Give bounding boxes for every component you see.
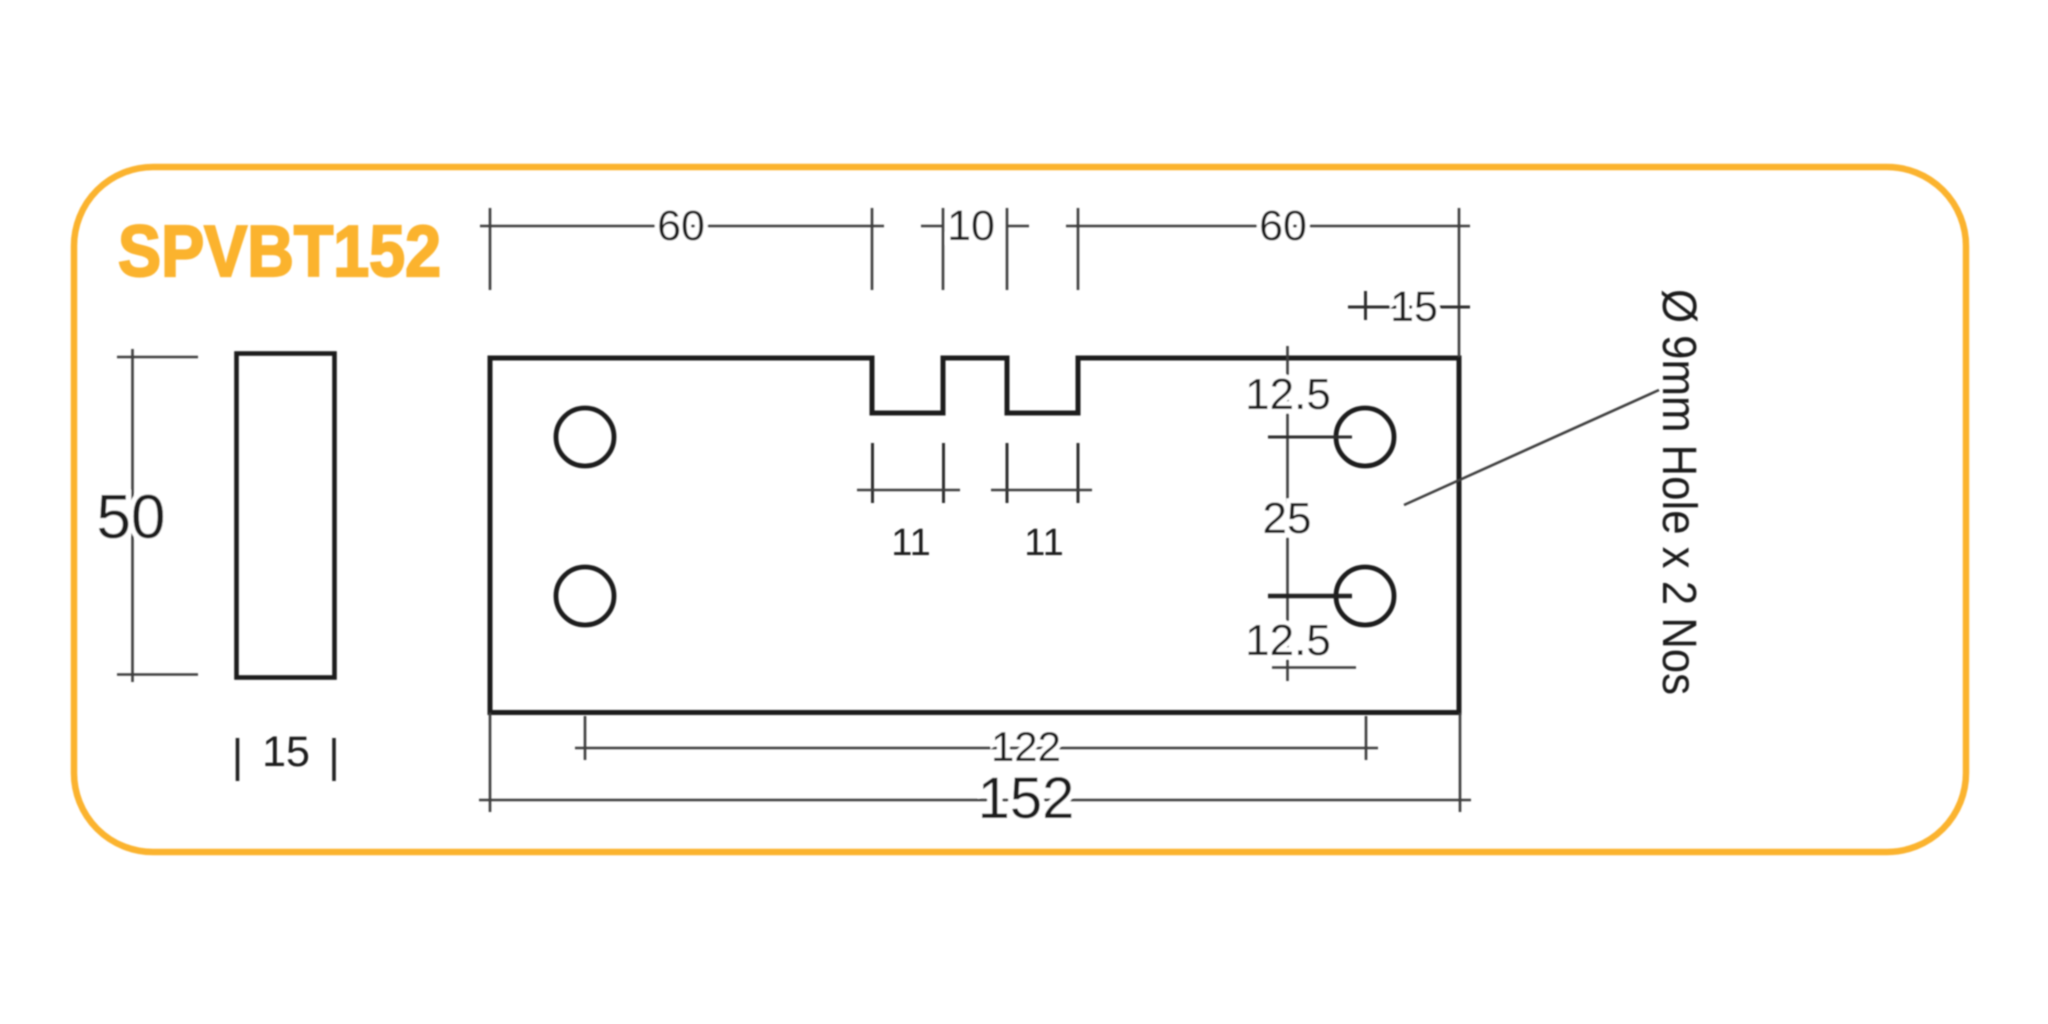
svg-text:11: 11 [891, 522, 930, 564]
svg-text:25: 25 [1263, 494, 1312, 543]
notch dim 11 left: tick b [942, 443, 945, 503]
right dims: vertical line [1286, 346, 1289, 681]
hole top-left [556, 408, 614, 466]
dim 15 top-right: line [1348, 306, 1470, 309]
notch dim 11 left: line [857, 489, 960, 492]
hole bottom-right [1336, 567, 1394, 625]
dim 15 (side view width): left bar [236, 738, 240, 781]
svg-text:15: 15 [1390, 283, 1438, 331]
dim 60 left: line [480, 225, 884, 228]
dim 15 top-right: left tick [1364, 291, 1367, 320]
notch dim 11 right: tick a [1006, 443, 1009, 503]
svg-text:12.5: 12.5 [1245, 616, 1331, 665]
plate outline with two notches [490, 358, 1459, 713]
frame: yellow rounded border [74, 167, 1966, 852]
notch dim 11 left: tick a [871, 443, 874, 503]
side view rectangle (15 x 50 section) [237, 354, 335, 678]
svg-text:60: 60 [657, 202, 705, 250]
svg-text:15: 15 [262, 728, 310, 776]
right dims: bottom reference tick [1272, 666, 1356, 669]
dim 50: bottom tick [117, 673, 198, 676]
svg-text:10: 10 [947, 202, 995, 250]
notch dim 11 right: tick b [1077, 443, 1080, 503]
svg-text:152: 152 [978, 766, 1075, 831]
hole top-right [1336, 408, 1394, 466]
top dims: extension line x=872 [871, 208, 874, 290]
right dims: tick at bottom hole center [1268, 594, 1352, 599]
dim 10: line stubs [921, 225, 943, 228]
top dims: extension line x=1078 [1077, 208, 1080, 290]
svg-text:12.5: 12.5 [1245, 370, 1331, 419]
bottom dims: extension x=1366 [1365, 716, 1368, 760]
dim 15 (side view width): right bar [332, 738, 336, 781]
dim 50: vertical dimension line [131, 349, 134, 682]
bottom dims: extension x=490 [489, 713, 492, 812]
svg-text:SPVBT152: SPVBT152 [118, 212, 441, 292]
svg-text:11: 11 [1024, 522, 1063, 564]
top dims: extension line x=490 [489, 208, 492, 290]
leader line to hole note [1404, 390, 1659, 505]
right dims: tick at top hole center [1268, 436, 1352, 439]
svg-text:50: 50 [97, 483, 166, 552]
bottom dims: extension x=585 [584, 716, 587, 760]
hole bottom-left [556, 567, 614, 625]
top dims: long extension line x=1459 [1458, 208, 1461, 357]
top dims: extension line x=943 [942, 208, 945, 290]
svg-text:Ø 9mm Hole x 2 Nos: Ø 9mm Hole x 2 Nos [1652, 289, 1705, 695]
dim 122: line [575, 747, 1378, 750]
dim 152: line [479, 799, 1471, 802]
dim 50: top tick [117, 356, 198, 359]
dim 60 right: line [1066, 225, 1470, 228]
bottom dims: extension x=1460 [1459, 713, 1462, 812]
svg-text:122: 122 [991, 723, 1061, 770]
notch dim 11 right: line [991, 489, 1092, 492]
svg-text:60: 60 [1259, 202, 1307, 250]
top dims: extension line x=1007 [1006, 208, 1009, 290]
